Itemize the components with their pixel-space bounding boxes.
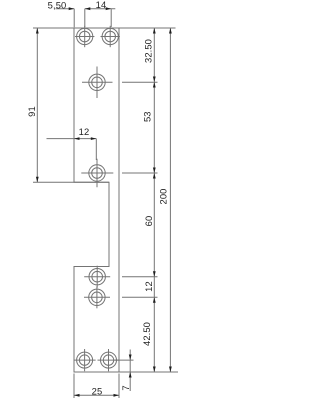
svg-text:14: 14 [96, 0, 107, 10]
svg-text:42.50: 42.50 [141, 322, 152, 346]
svg-text:32.50: 32.50 [143, 39, 154, 63]
svg-text:12: 12 [143, 281, 154, 292]
svg-text:60: 60 [143, 216, 154, 227]
svg-text:12: 12 [79, 126, 90, 137]
svg-text:91: 91 [26, 106, 37, 117]
svg-text:200: 200 [158, 189, 169, 205]
svg-text:5,50: 5,50 [48, 0, 67, 10]
svg-text:7: 7 [120, 385, 131, 390]
svg-text:53: 53 [141, 111, 152, 122]
svg-text:25: 25 [92, 385, 103, 396]
